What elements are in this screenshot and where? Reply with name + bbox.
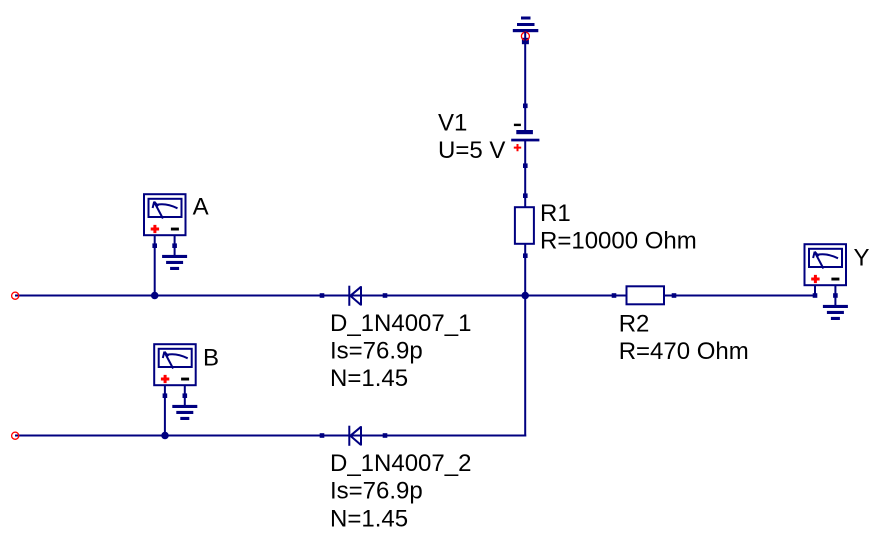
svg-text:D_1N4007_1: D_1N4007_1 <box>330 310 471 337</box>
diode D_1N4007_1 <box>320 286 388 306</box>
svg-text:Is=76.9p: Is=76.9p <box>330 477 423 504</box>
diode D_1N4007_2 <box>320 426 388 446</box>
svg-text:N=1.45: N=1.45 <box>330 365 408 392</box>
voltage source V1 <box>511 104 539 169</box>
wire: main horizontal bus 2 <box>15 435 526 437</box>
voltmeter B <box>154 344 196 435</box>
node: meter B junction <box>161 432 169 440</box>
voltmeter A <box>144 194 186 295</box>
svg-text:N=1.45: N=1.45 <box>330 505 408 532</box>
wire: V1 to R1 to node (vertical) <box>524 140 526 297</box>
node: center junction <box>521 292 529 300</box>
svg-text:Is=76.9p: Is=76.9p <box>330 337 423 364</box>
svg-text:R=470 Ohm: R=470 Ohm <box>619 338 749 365</box>
svg-text:D_1N4007_2: D_1N4007_2 <box>330 450 471 477</box>
svg-text:R1: R1 <box>540 200 571 227</box>
svg-text:R=10000 Ohm: R=10000 Ohm <box>540 227 697 254</box>
ground (under meter A) <box>162 255 187 270</box>
resistor R1 <box>515 193 534 258</box>
wire: top ground to V1 <box>524 32 526 132</box>
svg-text:B: B <box>203 344 219 371</box>
terminal P1 (open circle) <box>12 292 19 299</box>
ground (under meter Y) <box>823 305 848 320</box>
svg-text:A: A <box>193 194 209 221</box>
svg-text:R2: R2 <box>619 311 650 338</box>
terminal P2 (open circle) <box>12 432 19 439</box>
voltmeter Y <box>805 244 847 305</box>
resistor R2 <box>612 286 677 304</box>
wire: vertical node to bus 2 <box>524 296 526 437</box>
wire: main horizontal bus 1 <box>15 295 815 297</box>
ground (top, flipped) <box>513 17 539 45</box>
svg-text:Y: Y <box>854 244 870 271</box>
svg-text:V1: V1 <box>438 109 467 136</box>
ground (under meter B) <box>172 405 197 420</box>
svg-text:U=5 V: U=5 V <box>438 137 505 164</box>
node: meter A junction <box>151 292 159 300</box>
